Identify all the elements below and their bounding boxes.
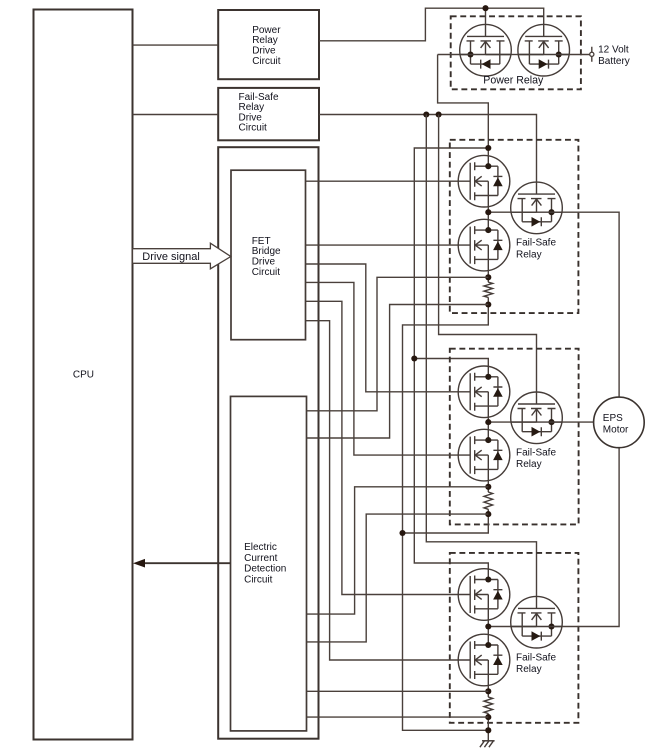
node sense bottom bridge 3: [485, 714, 491, 720]
wire gate high-side FET 3: [306, 301, 459, 594]
node on relay gate wire: [482, 5, 488, 11]
svg-text:Motor: Motor: [603, 424, 629, 435]
+12V rail to bridges 2 and 3: [414, 148, 488, 569]
svg-text:Detection: Detection: [244, 564, 286, 575]
svg-text:Battery: Battery: [598, 56, 630, 67]
wire fail-safe drive to fail-safe relay 1 gate: [319, 115, 537, 183]
high-side FET bridge 2: [458, 366, 510, 418]
label 12 Volt Battery: [598, 45, 630, 67]
wire gate low-side FET 3: [306, 321, 459, 660]
wire sense tap 2a to detection: [307, 487, 489, 614]
bridge 3 dashed box: [450, 553, 579, 723]
power relay FET Q2: [518, 24, 570, 76]
node sense top bridge 3: [485, 688, 491, 694]
low-side FET bridge 2: [458, 429, 510, 481]
node sense bottom bridge 2: [485, 511, 491, 517]
battery terminal: [590, 47, 594, 62]
wire power relay left lead: [438, 54, 460, 56]
svg-text:Drive: Drive: [252, 45, 276, 56]
wire between power relay FETs: [511, 54, 518, 56]
ground: [480, 741, 495, 747]
wire power relay output down to bridge 1: [438, 55, 489, 156]
node mid bridge 2: [485, 419, 491, 425]
Drive signal arrow: [133, 243, 231, 269]
wire source to sense resistor 1: [487, 271, 489, 283]
wire mid node bridge 2: [488, 418, 510, 430]
svg-text:Relay: Relay: [516, 664, 542, 675]
node sense top bridge 2: [485, 484, 491, 490]
high-side FET bridge 1: [458, 155, 510, 207]
high-side FET bridge 3: [458, 569, 510, 621]
bridge 2 dashed box: [450, 349, 579, 525]
svg-text:Circuit: Circuit: [252, 267, 281, 278]
node sense bottom bridge 1: [485, 301, 491, 307]
sense resistor R1: [484, 282, 493, 297]
svg-text:12 Volt: 12 Volt: [598, 45, 629, 56]
node ground bus joint: [399, 530, 405, 536]
svg-text:Relay: Relay: [516, 249, 542, 260]
EPS Motor: [594, 397, 645, 448]
wire gate high-side FET 2: [306, 264, 459, 392]
fail-safe relay FET 3: [511, 596, 563, 648]
wire resistor 3 to ground: [487, 714, 489, 741]
sense resistor R3: [484, 697, 493, 713]
Electric Current Detection Circuit box: [231, 396, 307, 731]
wire mid node bridge 3: [488, 620, 510, 634]
fail-safe relay FET 2: [511, 392, 563, 444]
power relay FET Q1: [460, 24, 512, 76]
wire fail-safe gate feed bridge 3: [426, 115, 536, 597]
svg-text:CPU: CPU: [73, 369, 94, 380]
wire fail-safe relay 1 to motor: [562, 212, 619, 396]
low-side FET bridge 1: [458, 219, 510, 271]
svg-text:Current: Current: [244, 553, 278, 564]
svg-text:Relay: Relay: [516, 459, 542, 470]
wire source to sense resistor 2: [487, 480, 489, 492]
outer driver block box: [218, 147, 318, 739]
current feedback arrow to CPU: [133, 559, 231, 568]
wire Power Relay Drive Circuit to relay gates: [319, 8, 544, 41]
wire fail-safe relay 3 to motor: [562, 448, 619, 627]
svg-text:Fail-Safe: Fail-Safe: [516, 448, 556, 459]
wire gate low-side FET 2: [306, 282, 459, 455]
Power Relay dashed box: [451, 16, 581, 89]
node fail-safe branch 2: [436, 111, 442, 117]
label Fail-Safe Relay 2: [516, 448, 556, 471]
node fail-safe branch 3: [423, 111, 429, 117]
fail-safe relay FET 1: [511, 182, 563, 234]
svg-text:Electric: Electric: [244, 542, 277, 553]
wire resistor 1 to ground bus: [403, 297, 489, 730]
node mid bridge 1: [485, 209, 491, 215]
wire sense tap 3a to detection: [307, 690, 489, 692]
wire gate low-side FET 1: [306, 244, 459, 246]
svg-text:Fail-Safe: Fail-Safe: [516, 653, 556, 664]
wire sense tap 3b to detection: [307, 716, 489, 718]
wire gate high-side FET 1: [306, 180, 459, 182]
FET Bridge Drive Circuit box: [231, 170, 306, 340]
node sense top bridge 1: [485, 274, 491, 280]
wire relay to battery terminal: [570, 54, 590, 56]
wire CPU to Power Relay Drive Circuit: [133, 44, 219, 46]
svg-text:EPS: EPS: [603, 413, 623, 424]
svg-text:Circuit: Circuit: [252, 56, 281, 67]
svg-text:Drive: Drive: [252, 257, 276, 268]
svg-text:Circuit: Circuit: [244, 574, 273, 585]
label Power Relay: [483, 75, 544, 87]
node mid bridge 3: [485, 623, 491, 629]
svg-text:Drive signal: Drive signal: [142, 251, 199, 263]
wire sense tap 1a to detection: [307, 277, 489, 411]
sense resistor R2: [484, 492, 493, 509]
Fail-Safe Relay Drive Circuit box: [218, 88, 319, 140]
wire mid node bridge 1: [488, 207, 510, 219]
wire sense tap 2b to detection: [307, 514, 489, 642]
label Fail-Safe Relay 1: [516, 238, 556, 261]
wire sense tap 1b to detection: [307, 305, 489, 439]
wire resistor 2 to ground bus: [403, 509, 489, 533]
svg-text:Power Relay: Power Relay: [483, 75, 544, 87]
node rail bridge 1: [485, 145, 491, 151]
low-side FET bridge 3: [458, 634, 510, 686]
svg-text:Circuit: Circuit: [239, 123, 268, 134]
node ground bridge 3: [485, 727, 491, 733]
bridge 1 dashed box: [450, 140, 579, 313]
node rail bridge 2: [411, 355, 417, 361]
wire source to sense resistor 3: [487, 685, 489, 697]
wire fail-safe relay 2 to motor: [562, 421, 593, 423]
Power Relay Drive Circuit box: [218, 10, 319, 79]
label Fail-Safe Relay 3: [516, 653, 556, 676]
CPU box: [34, 10, 133, 740]
wire CPU to Fail-Safe Relay Drive Circuit: [133, 114, 219, 116]
wire fail-safe gate feed bridge 2: [439, 115, 537, 393]
svg-text:Fail-Safe: Fail-Safe: [516, 238, 556, 249]
